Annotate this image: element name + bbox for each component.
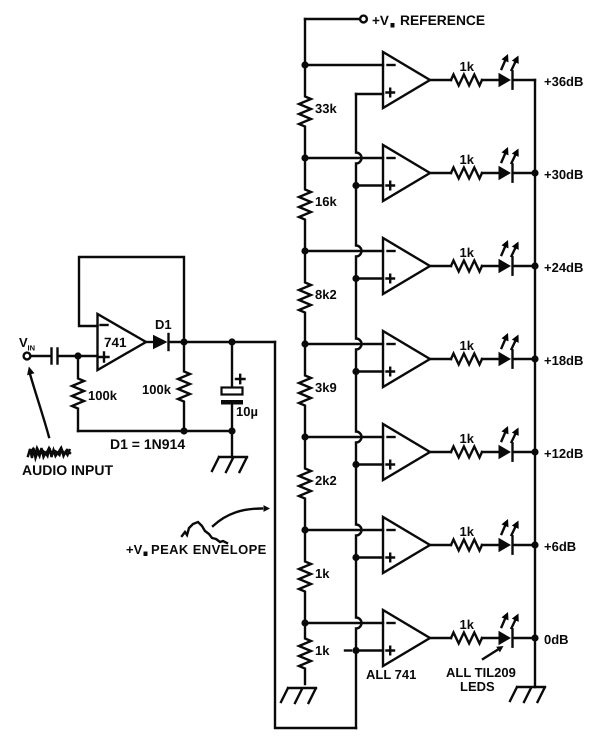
wire LED to output bus: [514, 358, 535, 360]
node: ladder tap 7: [301, 619, 308, 626]
wire capacitor to op-amp + input: [59, 355, 98, 357]
wire comparator output to resistor: [430, 637, 451, 639]
wire resistor to LED: [482, 265, 499, 267]
arrow from LEDS label to LED: [483, 650, 498, 660]
wire ladder tap to comparator U7 - input: [305, 529, 383, 531]
wire envelope feed down and across to comparator bus: [275, 342, 356, 728]
node: output bus row 6: [531, 541, 538, 548]
resistor 1k (row 1): [451, 59, 482, 86]
svg-text:1k: 1k: [460, 338, 475, 353]
wire resistor to LED: [482, 172, 499, 174]
svg-text:IN: IN: [28, 344, 36, 353]
node: envelope bus to + input: [352, 182, 359, 189]
wire comparator output to resistor: [430, 544, 451, 546]
arrow from audio sketch to VIN: [30, 374, 49, 437]
svg-text:ALL 741: ALL 741: [366, 667, 416, 682]
wire resistor to LED: [482, 79, 499, 81]
svg-text:3k9: 3k9: [315, 380, 337, 395]
node: output bus row 5: [531, 448, 538, 455]
svg-text:ALL TIL209: ALL TIL209: [446, 665, 516, 680]
wire ladder tap to comparator U3 - input: [305, 157, 383, 159]
terminal +Va REFERENCE: [305, 13, 485, 28]
arrow from envelope label to envelope wire: [213, 509, 262, 527]
wire ladder top: [304, 19, 306, 65]
svg-text:2k2: 2k2: [315, 473, 337, 488]
audio input waveform sketch: [28, 448, 70, 458]
op-amp comparator U3: [383, 145, 430, 201]
resistor ladder 33k: [299, 65, 337, 158]
resistor ladder 1k: [299, 623, 330, 684]
diode D1: [153, 317, 172, 350]
node: envelope bus to + input: [352, 461, 359, 468]
wire envelope bus vertical: [356, 94, 362, 728]
node: envelope bus to + input: [352, 368, 359, 375]
wire feedback loop from - input to diode cathode node: [79, 257, 184, 342]
wire comparator output to resistor: [430, 451, 451, 453]
resistor ladder 2k2: [299, 437, 337, 530]
svg-text:REFERENCE: REFERENCE: [400, 13, 485, 28]
svg-text:1k: 1k: [460, 431, 475, 446]
op-amp comparator U8: [383, 610, 430, 666]
svg-text:10µ: 10µ: [236, 404, 258, 419]
wire resistor to LED: [482, 451, 499, 453]
svg-text:+6dB: +6dB: [544, 539, 576, 554]
LED TIL209 (row 2): [499, 147, 519, 182]
LED TIL209 (row 4): [499, 333, 519, 368]
resistor 1k (row 2): [451, 152, 482, 179]
node: envelope bus to + input: [352, 647, 359, 654]
wire resistor to LED: [482, 544, 499, 546]
label +Va PEAK ENVELOPE: [126, 542, 267, 557]
node: output bus row 4: [531, 355, 538, 362]
svg-text:1k: 1k: [460, 617, 475, 632]
label ALL TIL209 LEDS: [446, 665, 516, 694]
wire comparator output to resistor: [430, 265, 451, 267]
wire bus to comparator + input: [356, 184, 383, 186]
svg-text:+36dB: +36dB: [544, 74, 583, 89]
capacitor C2 10u electrolytic: [221, 342, 258, 431]
wire comparator output to resistor: [430, 172, 451, 174]
LED TIL209 (row 7): [499, 612, 519, 647]
svg-text:1k: 1k: [460, 152, 475, 167]
wire diode to envelope corner: [170, 341, 276, 343]
node: ladder tap 3: [301, 247, 308, 254]
svg-text:AUDIO INPUT: AUDIO INPUT: [22, 462, 113, 478]
svg-text:D1: D1: [155, 317, 172, 332]
LED TIL209 (row 1): [499, 54, 519, 89]
svg-text:+12dB: +12dB: [544, 446, 583, 461]
svg-text:1k: 1k: [315, 566, 330, 581]
resistor 1k (row 7): [451, 617, 482, 644]
svg-text:1k: 1k: [460, 59, 475, 74]
node: diode/feedback/R2 junction: [180, 338, 187, 345]
resistor ladder 8k2: [299, 251, 337, 344]
wire ladder tap to comparator U6 - input: [305, 436, 383, 438]
node: capacitor top junction: [228, 338, 235, 345]
resistor ladder 3k9: [299, 344, 337, 437]
node: output bus row 2: [531, 169, 538, 176]
wire output bus vertical: [534, 80, 536, 687]
op-amp U1 741: [98, 314, 147, 370]
op-amp comparator U5: [383, 331, 430, 387]
svg-text:100k: 100k: [142, 382, 172, 397]
svg-text:+V: +V: [372, 13, 389, 28]
wire LED to output bus: [514, 451, 535, 453]
node: output bus row 7: [531, 634, 538, 641]
op-amp comparator U6: [383, 424, 430, 480]
node: envelope bus to + input: [352, 275, 359, 282]
node: output bus row 3: [531, 262, 538, 269]
wire bus to comparator + input: [356, 649, 383, 651]
LED TIL209 (row 5): [499, 426, 519, 461]
node: junction at + input / R1: [74, 352, 81, 359]
wire comparator output to resistor: [430, 358, 451, 360]
wire bus to comparator + input: [356, 556, 383, 558]
wire bus top corner to first comparator + input: [356, 93, 383, 95]
wire VIN to coupling capacitor: [31, 355, 50, 357]
resistor R1 100k: [72, 356, 118, 431]
svg-text:1k: 1k: [460, 524, 475, 539]
resistor 1k (row 5): [451, 431, 482, 458]
wire resistor to LED: [482, 358, 499, 360]
resistor 1k (row 6): [451, 524, 482, 551]
LED TIL209 (row 3): [499, 240, 519, 275]
ground (ladder bottom): [281, 688, 316, 703]
LED TIL209 (row 6): [499, 519, 519, 554]
svg-text:+30dB: +30dB: [544, 167, 583, 182]
wire bus to comparator + input: [356, 370, 383, 372]
stray minus mark near bottom bus dot: [345, 649, 351, 651]
ground (detector): [212, 457, 247, 472]
svg-text:741: 741: [104, 335, 127, 350]
wire LED to output bus: [514, 79, 535, 81]
wire LED to output bus: [514, 637, 535, 639]
wire LED to output bus: [514, 172, 535, 174]
wire bus to comparator + input: [356, 463, 383, 465]
wire bottom rail of detector: [78, 430, 232, 432]
resistor 1k (row 4): [451, 338, 482, 365]
input terminal VIN: [19, 335, 35, 359]
wire LED to output bus: [514, 544, 535, 546]
svg-text:1k: 1k: [460, 245, 475, 260]
op-amp comparator U7: [383, 517, 430, 573]
ground (output bus): [510, 687, 545, 702]
wire capacitor node to ground: [231, 431, 233, 457]
svg-text:0dB: 0dB: [544, 632, 569, 647]
wire ladder tap to comparator U2 - input: [305, 64, 383, 66]
svg-text:16k: 16k: [315, 194, 337, 209]
wire resistor to LED: [482, 637, 499, 639]
svg-text:+24dB: +24dB: [544, 260, 583, 275]
wire ladder tap to comparator U4 - input: [305, 250, 383, 252]
resistor ladder 16k: [299, 158, 337, 251]
resistor ladder 1k: [299, 530, 330, 623]
svg-text:100k: 100k: [88, 388, 118, 403]
node: ladder tap 4: [301, 340, 308, 347]
op-amp comparator U2: [383, 52, 430, 108]
coupling capacitor C1: [52, 349, 58, 364]
svg-text:PEAK ENVELOPE: PEAK ENVELOPE: [151, 542, 267, 557]
wire op-amp output to diode D1: [146, 341, 153, 343]
svg-text:+V: +V: [126, 542, 143, 557]
svg-text:33k: 33k: [315, 101, 337, 116]
svg-text:1k: 1k: [315, 643, 330, 658]
svg-text:D1 = 1N914: D1 = 1N914: [110, 436, 185, 452]
wire bus to comparator + input: [356, 277, 383, 279]
svg-text:8k2: 8k2: [315, 287, 337, 302]
wire comparator output to resistor: [430, 79, 451, 81]
wire ladder tap to comparator U5 - input: [305, 343, 383, 345]
resistor 1k (row 3): [451, 245, 482, 272]
resistor R2 100k: [142, 342, 190, 431]
svg-text:LEDS: LEDS: [460, 679, 495, 694]
node: envelope bus to + input: [352, 554, 359, 561]
node: ladder tap 5: [301, 433, 308, 440]
op-amp comparator U4: [383, 238, 430, 294]
wire ladder tap to comparator U8 - input: [305, 622, 383, 624]
peak envelope waveform sketch: [182, 522, 227, 543]
node: ladder tap 6: [301, 526, 308, 533]
node: capacitor bottom to rail/ground: [228, 427, 235, 434]
node: R2 to bottom rail: [180, 427, 187, 434]
wire LED to output bus: [514, 265, 535, 267]
node: ladder tap 1: [301, 61, 308, 68]
svg-text:+18dB: +18dB: [544, 353, 583, 368]
node: ladder tap 2: [301, 154, 308, 161]
